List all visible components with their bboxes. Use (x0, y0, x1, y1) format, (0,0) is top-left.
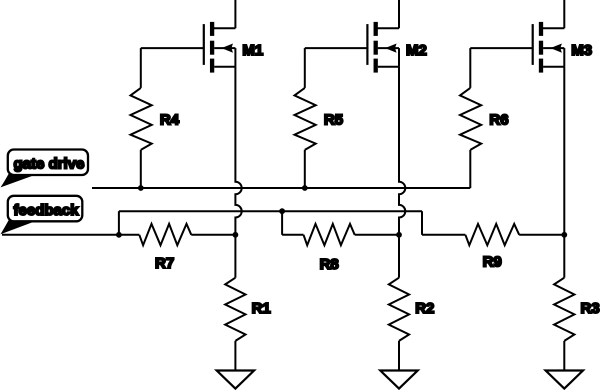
wire gate of M2 (305, 48, 368, 88)
wire R5 to gate drive rail (304, 150, 306, 188)
junction R8 / M2 source node (396, 232, 402, 238)
svg-text:R5: R5 (324, 112, 343, 129)
junction R4 / gate drive (138, 185, 144, 191)
wire R4 to gate drive rail (140, 150, 142, 188)
transistor M1 (204, 0, 263, 73)
wire gate of M1 (141, 48, 204, 88)
svg-text:M2: M2 (406, 42, 427, 59)
wire feedback net (2, 211, 119, 235)
wire source of M2 down to feedback node (399, 67, 405, 235)
wire feedback upper rail (119, 211, 422, 235)
svg-text:R9: R9 (483, 253, 502, 270)
svg-text:R7: R7 (155, 255, 174, 272)
wire source of M1 down to feedback node (235, 67, 241, 235)
wire R6 to gate drive rail (469, 150, 471, 188)
transistor M3 (533, 0, 592, 73)
svg-text:feedback: feedback (14, 202, 80, 219)
ground (217, 371, 254, 389)
resistor R6 (460, 88, 509, 150)
wire gate drive rail (92, 187, 470, 189)
node gate drive (callout flag) (1, 150, 89, 188)
junction R8 branch (279, 208, 285, 214)
svg-text:M1: M1 (242, 42, 263, 59)
svg-text:R2: R2 (415, 300, 434, 317)
junction R7 / M1 source node (233, 232, 239, 238)
transistor M2 (367, 0, 426, 73)
svg-text:M3: M3 (571, 42, 592, 59)
resistor R4 (131, 88, 180, 150)
junction feedback branch (116, 232, 122, 238)
node feedback (callout flag) (1, 196, 83, 234)
wire source of M3 down to feedback node (563, 67, 565, 235)
resistor R8 (282, 211, 399, 273)
resistor R5 (295, 88, 344, 150)
resistor R3 (554, 235, 600, 371)
ground (546, 371, 583, 389)
junction R5 / gate drive (302, 185, 308, 191)
resistor R7 (119, 224, 235, 272)
svg-text:R8: R8 (320, 256, 339, 273)
svg-text:R1: R1 (252, 300, 271, 317)
junction R9 / M3 source node (561, 232, 567, 238)
wire gate of M3 (470, 48, 532, 88)
resistor R2 (389, 235, 435, 371)
svg-text:R3: R3 (581, 300, 600, 317)
resistor R1 (225, 235, 271, 371)
svg-text:R4: R4 (160, 112, 180, 129)
ground (380, 371, 417, 389)
resistor R9 (422, 224, 564, 270)
svg-text:gate drive: gate drive (14, 156, 85, 173)
svg-text:R6: R6 (489, 112, 508, 129)
